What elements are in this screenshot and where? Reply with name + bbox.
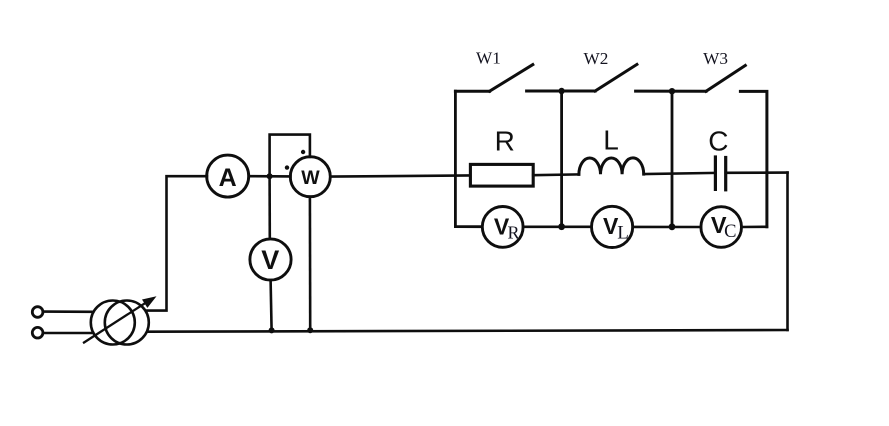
autotransformer T1 (variac) [84,296,157,344]
wire left branch vertical (W1 to R branch) [455,91,482,227]
wire top rail W3 contact, down to VC [740,91,767,226]
wire V to bottom bus [271,280,272,330]
voltmeter VC [701,207,742,248]
node junction (A/W/V) [267,173,273,179]
switch W2 [595,64,637,91]
voltmeter VR [482,207,523,248]
wire VL to VC [633,226,701,229]
switch W3 [706,66,745,92]
wire terminal-bottom to transformer [43,332,93,335]
capacitor C plate right [724,158,727,190]
wire top rail W1-contact to W2 [527,90,596,93]
node L branch / voltmeter row [558,223,565,230]
wire junction to voltmeter V [268,176,271,238]
wire terminal-top to transformer [43,310,92,313]
wire C to right corner [726,171,788,174]
svg-text:W3: W3 [703,49,728,68]
svg-text:R: R [495,126,515,157]
svg-text:W: W [301,167,320,189]
wire C branch vertical [671,91,674,227]
wire W bottom to bus [309,197,312,331]
resistor R [470,164,533,186]
wire top rail W2-contact to W3 [636,90,706,93]
node top rail / L branch [558,88,564,94]
wire wattmeter potential-coil loop [270,135,310,177]
wire R to L [533,173,579,176]
wire VC to right vertical [742,226,767,229]
wattmeter polarity dot left [285,165,289,169]
inductor L [579,158,644,175]
svg-text:W2: W2 [583,49,608,68]
svg-text:L: L [603,124,619,155]
svg-text:L: L [617,223,629,244]
svg-text:W1: W1 [476,49,501,68]
svg-text:C: C [708,126,728,157]
node top rail / C branch [669,88,675,94]
svg-text:V: V [261,245,279,275]
wire L to C [644,173,716,174]
voltmeter VL [592,206,633,247]
node C branch / voltmeter row [669,223,676,230]
wattmeter W [290,157,330,197]
switch W1 [455,65,532,92]
wire right vertical to bus [786,173,789,330]
wire bottom bus [149,330,788,332]
svg-text:C: C [724,222,736,242]
wire A to junction to W [249,175,291,178]
wattmeter polarity dot top [301,150,305,154]
wire W to R branch (mid line) [330,175,470,176]
ammeter A [207,155,249,197]
input terminal bottom [32,327,43,338]
capacitor C plate left [714,157,717,189]
svg-text:R: R [507,223,519,243]
wire VR to VL [523,226,592,229]
svg-text:A: A [219,164,237,192]
voltmeter V [250,239,291,280]
node W-bus junction [307,327,313,333]
wire wiper to ammeter (up) [146,176,207,310]
node V-bus junction [269,327,275,333]
wire L branch vertical [560,91,563,227]
input terminal top [32,307,43,318]
